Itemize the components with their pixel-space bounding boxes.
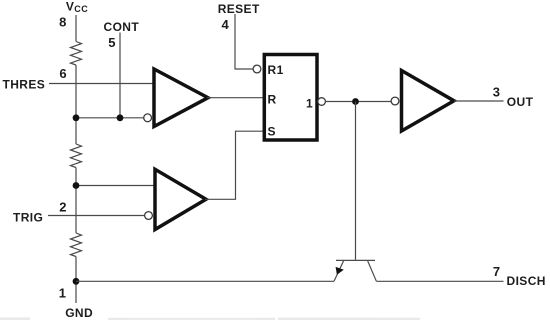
wire divider mid2: [75, 168, 77, 234]
buffer U4 output stage: [402, 71, 455, 132]
svg-text:R: R: [268, 93, 277, 107]
wire node B line: [76, 185, 156, 187]
wire divider mid1: [75, 65, 77, 144]
transistor Q1 base bar: [336, 259, 375, 261]
transistor Q1 emitter arrow: [336, 267, 344, 275]
wire base drive: [355, 102, 357, 260]
node A junction: [73, 114, 80, 121]
svg-text:THRES: THRES: [3, 78, 46, 92]
wire THRES line: [49, 83, 155, 85]
node GND junction: [73, 278, 80, 285]
svg-text:8: 8: [59, 15, 66, 30]
svg-text:CONT: CONT: [104, 20, 140, 34]
flip-flop U3: [264, 55, 317, 141]
svg-text:VCC: VCC: [66, 0, 88, 14]
svg-text:3: 3: [493, 85, 500, 100]
wire flip-flop output: [325, 101, 391, 103]
comparator U1 threshold: [154, 69, 208, 127]
svg-text:2: 2: [59, 199, 66, 214]
svg-text:DISCH: DISCH: [507, 274, 546, 288]
svg-text:7: 7: [493, 264, 500, 279]
faint cropped caption remnants: [0, 317, 420, 320]
svg-text:6: 6: [59, 66, 66, 81]
svg-text:1: 1: [306, 97, 313, 111]
resistor R1: [71, 42, 82, 66]
svg-text:5: 5: [108, 35, 115, 50]
node CONT junction: [117, 114, 124, 121]
resistor R3: [71, 233, 82, 257]
svg-text:OUT: OUT: [507, 95, 534, 109]
wire DISCH line: [376, 280, 503, 282]
node B junction: [73, 182, 80, 189]
node output junction: [352, 98, 359, 105]
wire VCC stub: [75, 15, 77, 42]
wire RESET: [235, 14, 253, 69]
svg-text:1: 1: [59, 286, 66, 301]
bubble flip-flop output: [318, 98, 326, 106]
svg-text:S: S: [268, 124, 276, 138]
wire OUT line: [454, 100, 504, 102]
bubble buffer input: [391, 97, 399, 105]
svg-text:4: 4: [222, 17, 230, 32]
bubble U2 inverting input: [145, 212, 153, 220]
svg-text:RESET: RESET: [218, 2, 260, 16]
wire comparator1 output: [207, 97, 263, 99]
bubble U1 inverting input: [144, 114, 152, 122]
comparator U2 trigger: [155, 169, 206, 229]
svg-text:R1: R1: [268, 63, 284, 77]
wire CONT vertical: [119, 33, 121, 118]
svg-text:TRIG: TRIG: [13, 211, 43, 225]
transistor Q1 emitter: [334, 261, 344, 281]
wire node A line: [76, 117, 144, 119]
bubble R1 input: [253, 65, 261, 73]
resistor R2: [71, 144, 82, 168]
wire GND rail: [76, 280, 334, 282]
wire divider bottom: [75, 257, 77, 304]
transistor Q1 collector: [368, 261, 377, 281]
wire TRIG line: [48, 215, 145, 217]
svg-text:GND: GND: [65, 306, 93, 320]
wire comparator2 output to S: [205, 131, 263, 199]
